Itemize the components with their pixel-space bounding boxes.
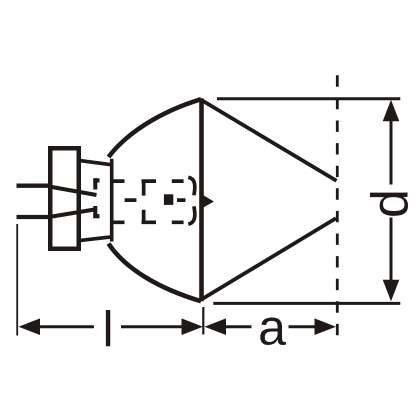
svg-text:l: l — [102, 302, 113, 358]
svg-text:a: a — [258, 299, 286, 355]
svg-text:d: d — [362, 189, 420, 218]
